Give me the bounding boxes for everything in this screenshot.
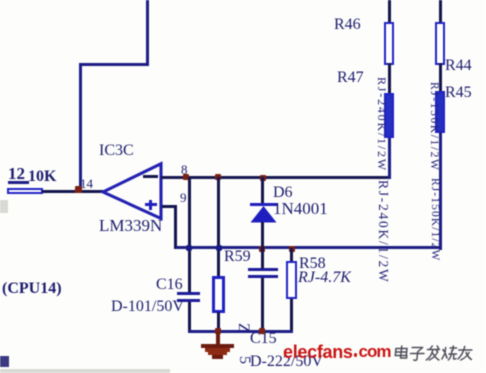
watermark chinese 电子发烧友 (drawn strokes) bbox=[392, 345, 474, 362]
minus input mark bbox=[143, 175, 158, 178]
label R59 bbox=[224, 248, 251, 266]
label R58 bbox=[299, 255, 326, 273]
wire: C16 branch vertical from pin8 node bbox=[188, 177, 191, 292]
wire between R44/R45 bbox=[439, 63, 442, 92]
node: bus/R59 crossing bbox=[216, 245, 222, 251]
node dot on pin8 wire at C16 drop bbox=[183, 174, 189, 180]
node dot on pin8 wire at R59 drop bbox=[215, 174, 221, 180]
label R45 bbox=[445, 84, 472, 102]
resistor R45 body bbox=[435, 91, 445, 133]
label C15 prefix glyph bbox=[234, 323, 252, 333]
wire below R47 to pin8 bus bbox=[388, 138, 391, 179]
capacitor C16 plates bbox=[177, 292, 200, 296]
label D-101/50V bbox=[111, 298, 184, 316]
label (CPU14) bbox=[2, 280, 62, 298]
label RJ-240K/1/2W upper (R46) bbox=[374, 77, 389, 172]
wire: resistor to op-amp vertex bbox=[42, 190, 105, 193]
wire below R45 to mid bus bbox=[439, 132, 442, 250]
resistor R58 bbox=[290, 248, 293, 262]
label pin 8 bbox=[181, 162, 188, 178]
node dot: C15 bottom bbox=[259, 328, 265, 334]
resistor R-in 10K body bbox=[7, 188, 43, 194]
label RJ-150K/1/2W lower (R45) bbox=[429, 178, 441, 261]
wire: bottom bus y330 bbox=[188, 330, 293, 333]
ground symbol bbox=[216, 332, 220, 345]
label R46 bbox=[334, 16, 361, 34]
label RJ-150K/1/2W upper (R44) bbox=[428, 82, 440, 171]
wire: left vertical down to op-amp output node bbox=[79, 63, 82, 191]
wire: R59 branch vertical from pin8 node bbox=[217, 177, 220, 276]
resistor R59 bbox=[212, 276, 225, 313]
edge artifacts bbox=[0, 200, 8, 213]
resistor chain right: feed wire bbox=[439, 0, 442, 23]
label D6 bbox=[273, 184, 293, 202]
node: bus/C16 crossing bbox=[186, 245, 192, 251]
resistor R44 body bbox=[435, 22, 445, 66]
label D-222 prefix glyph bbox=[235, 356, 253, 364]
label RJ-4.7K bbox=[298, 269, 351, 287]
label 1N4001 bbox=[273, 199, 328, 219]
wire: pin9 vertical drop bbox=[174, 205, 177, 250]
label R44 bbox=[445, 57, 472, 75]
label IC3C bbox=[99, 142, 134, 160]
elecfans.com watermark bbox=[283, 342, 353, 363]
wire between R46/R47 bbox=[388, 63, 391, 94]
label pin 14 bbox=[80, 176, 93, 192]
node: junction at pin14 bbox=[75, 186, 82, 193]
resistor chain left: feed wire bbox=[388, 0, 391, 23]
label C15 bbox=[250, 330, 277, 348]
wire: mid bus y247 bbox=[176, 246, 443, 249]
wire: top feed vertical bbox=[146, 0, 149, 66]
plus input mark bbox=[145, 203, 157, 206]
wire: pin9 stub bbox=[162, 205, 177, 208]
node dot: gnd junction bbox=[215, 328, 221, 334]
underline of 12 bbox=[8, 181, 29, 184]
label C16 bbox=[156, 276, 183, 294]
label R47 bbox=[337, 69, 364, 87]
wire: pin8 bus to right (y176) bbox=[161, 176, 391, 179]
diode D6 bbox=[261, 177, 264, 204]
label pin 9 bbox=[180, 190, 187, 206]
label D-222/50V bbox=[250, 353, 323, 371]
label RJ-240K/1/2W lower (R47) bbox=[375, 180, 391, 284]
resistor R46 body bbox=[384, 22, 394, 66]
node dot: bus/R58 bbox=[289, 246, 295, 252]
capacitor C15 plates bbox=[261, 249, 264, 268]
node dot: bus/D6-C15 bbox=[259, 246, 265, 252]
resistor R47 body bbox=[384, 93, 394, 138]
label 12 (net) bbox=[8, 164, 25, 184]
label LM339N bbox=[99, 216, 162, 236]
label 10K bbox=[28, 168, 56, 186]
node dot on pin8 wire at D6 bbox=[260, 175, 266, 181]
op-amp U IC3C triangle bbox=[98, 158, 168, 226]
wire: top jog horizontal bbox=[79, 63, 147, 66]
